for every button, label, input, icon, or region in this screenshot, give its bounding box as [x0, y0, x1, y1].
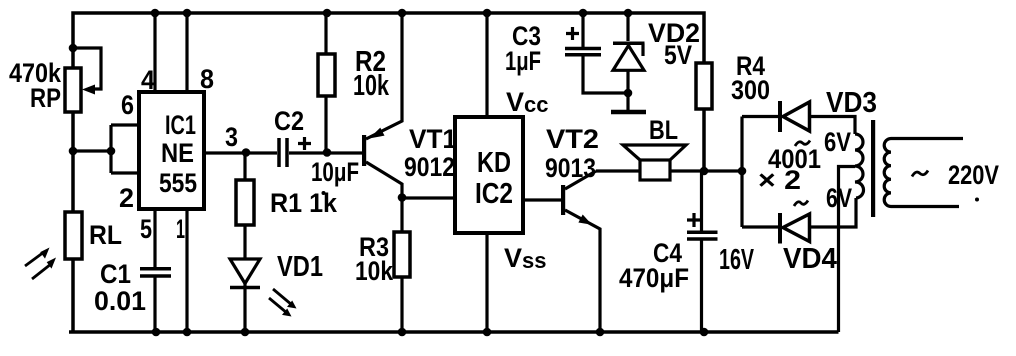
- svg-text:9013: 9013: [545, 153, 596, 183]
- svg-text:8: 8: [200, 64, 214, 94]
- svg-text:1: 1: [176, 214, 185, 244]
- svg-text:VT1: VT1: [409, 124, 457, 154]
- svg-text:300: 300: [731, 75, 770, 105]
- svg-text:VD1: VD1: [277, 251, 323, 283]
- svg-text:6: 6: [121, 90, 134, 120]
- svg-text:10k: 10k: [355, 256, 394, 286]
- svg-text:1μF: 1μF: [505, 46, 541, 76]
- svg-text:555: 555: [159, 168, 197, 198]
- svg-text:× 2: × 2: [758, 165, 801, 195]
- svg-text:RP: RP: [30, 83, 61, 113]
- svg-text:VD3: VD3: [826, 87, 877, 119]
- svg-text:6V: 6V: [826, 183, 852, 213]
- svg-text:NE: NE: [161, 138, 194, 168]
- svg-text:Vcc: Vcc: [506, 87, 549, 117]
- svg-text:RL: RL: [89, 220, 122, 250]
- svg-text:5: 5: [140, 214, 152, 244]
- svg-text:5V: 5V: [664, 40, 692, 70]
- svg-text:KD: KD: [477, 147, 511, 179]
- svg-text:0.01: 0.01: [94, 286, 146, 316]
- svg-text:10k: 10k: [353, 70, 390, 102]
- svg-text:470μF: 470μF: [619, 263, 689, 293]
- svg-text:4: 4: [141, 65, 155, 95]
- svg-text:C1: C1: [100, 259, 131, 289]
- svg-text:VD4: VD4: [783, 243, 837, 275]
- svg-text:BL: BL: [649, 115, 678, 145]
- svg-text:2: 2: [119, 183, 134, 213]
- svg-text:R1 1k: R1 1k: [270, 188, 338, 218]
- svg-text:IC1: IC1: [165, 110, 196, 140]
- svg-text:Vss: Vss: [504, 243, 547, 273]
- svg-text:3: 3: [225, 122, 238, 152]
- svg-text:VT2: VT2: [546, 124, 599, 154]
- svg-text:IC2: IC2: [475, 178, 513, 210]
- svg-text:9012: 9012: [404, 152, 455, 182]
- svg-text:16V: 16V: [719, 244, 754, 276]
- svg-text:6V: 6V: [824, 127, 851, 157]
- svg-text:220V: 220V: [948, 160, 999, 190]
- svg-text:10μF: 10μF: [311, 157, 359, 187]
- svg-text:C2: C2: [274, 106, 304, 136]
